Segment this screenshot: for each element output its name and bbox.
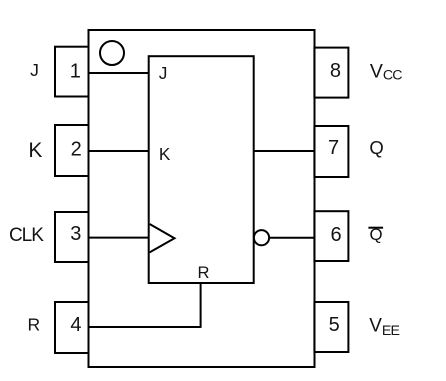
- wire K: pin 2 to flip-flop: [89, 150, 149, 152]
- pin 5 box: [314, 302, 348, 352]
- IC body (DIP-8 package outline): [89, 30, 315, 367]
- svg-text:6: 6: [330, 224, 341, 246]
- pin 1 indicator circle: [100, 41, 124, 65]
- JK flip-flop block U1: [149, 56, 254, 283]
- pin 8 box: [314, 48, 348, 98]
- svg-text:K: K: [28, 139, 42, 162]
- svg-text:R: R: [198, 263, 210, 282]
- pin 3 box: [55, 212, 89, 262]
- pin 7 box: [314, 126, 348, 177]
- svg-text:K: K: [159, 144, 171, 164]
- svg-text:R: R: [27, 314, 40, 334]
- label Q-bar (pin 6, outside): [368, 225, 383, 244]
- wire R horizontal: pin 4 run: [89, 326, 201, 328]
- svg-text:CLK: CLK: [9, 225, 44, 246]
- svg-text:5: 5: [329, 314, 340, 336]
- svg-text:J: J: [159, 63, 168, 83]
- svg-text:8: 8: [330, 60, 341, 82]
- inverted output bubble: [254, 230, 269, 245]
- svg-text:7: 7: [328, 137, 339, 159]
- svg-text:2: 2: [71, 139, 82, 161]
- svg-text:3: 3: [70, 223, 81, 245]
- svg-text:4: 4: [70, 314, 81, 336]
- pin 6 box: [314, 211, 348, 261]
- wire CLK: pin 3 to flip-flop: [89, 237, 149, 239]
- wire Q-bar: bubble to pin 6: [269, 237, 314, 239]
- svg-text:1: 1: [70, 61, 81, 83]
- pin 4 box: [55, 302, 89, 353]
- clock edge triangle: [150, 224, 175, 252]
- wire R vertical: up to flip-flop bottom: [200, 283, 202, 328]
- wire J: pin 1 to flip-flop: [89, 72, 149, 74]
- svg-text:Q: Q: [369, 137, 383, 158]
- wire Q: flip-flop to pin 7: [254, 150, 315, 152]
- svg-text:J: J: [30, 60, 39, 80]
- pin 1 box: [55, 47, 89, 97]
- pin 2 box: [55, 125, 89, 176]
